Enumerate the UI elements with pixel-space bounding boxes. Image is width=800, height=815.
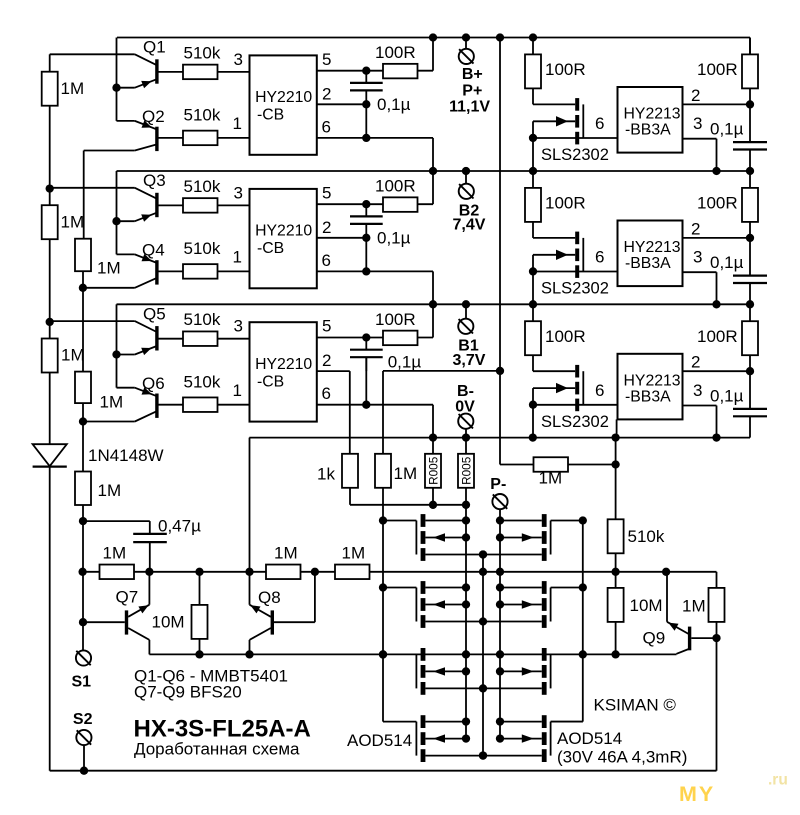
junction Q9 base node bbox=[712, 634, 720, 642]
svg-text:5: 5 bbox=[322, 50, 331, 69]
resistor 510k (Q4 base) bbox=[183, 264, 218, 279]
junction on B2 rail bbox=[746, 167, 754, 175]
wire source column bbox=[482, 555, 484, 756]
resistor 100R (cell filter) bbox=[383, 64, 418, 79]
transistor Q3 MMBT5401 bbox=[155, 193, 158, 217]
wire body arrow L2 bbox=[425, 604, 466, 606]
terminal S2 bbox=[76, 730, 91, 745]
svg-text:0,1µ: 0,1µ bbox=[377, 95, 411, 114]
wire pin2 net to bias node bbox=[383, 370, 500, 372]
resistor 1M (bias) bbox=[534, 457, 569, 472]
transistor AOD514 bank L4 bbox=[421, 715, 426, 728]
junction on B1 rail bbox=[746, 300, 754, 308]
svg-text:S2: S2 bbox=[73, 711, 93, 728]
wire B- rail to 510k bbox=[615, 438, 617, 520]
op-amp U HY2213-BB3A balancer IC bbox=[618, 221, 683, 287]
svg-text:100R: 100R bbox=[697, 194, 738, 213]
wire 1k bottom bbox=[349, 488, 351, 505]
junction pin6 cap node bbox=[362, 267, 370, 275]
junction bus at source col bbox=[479, 568, 487, 576]
junction on B2 rail bbox=[529, 167, 537, 175]
transistor AOD514 bank L3 bbox=[421, 648, 426, 661]
junction bus at Q8 base bbox=[311, 568, 319, 576]
wire pin 5 bbox=[317, 337, 433, 339]
terminal P- bbox=[492, 494, 507, 509]
resistor 100R (cap filter) bbox=[749, 304, 751, 321]
junction pin6 cap node bbox=[362, 134, 370, 142]
svg-text:0,1µ: 0,1µ bbox=[710, 253, 744, 272]
junction body L4 bbox=[462, 734, 470, 742]
svg-text:MY: MY bbox=[679, 782, 715, 806]
transistor Q6 MMBT5401 bbox=[155, 394, 158, 418]
svg-text:1M: 1M bbox=[97, 259, 121, 278]
wire pin 3 bbox=[683, 138, 717, 140]
wire Q4 emitter path bbox=[117, 253, 135, 255]
svg-text:1M: 1M bbox=[539, 469, 563, 488]
svg-text:1M: 1M bbox=[98, 481, 122, 500]
wire Q1 collector bbox=[50, 53, 135, 55]
svg-text:7,4V: 7,4V bbox=[453, 217, 486, 234]
resistor R 1M (cell1 divider) bbox=[42, 72, 58, 106]
svg-text:1M: 1M bbox=[342, 544, 366, 563]
svg-text:3: 3 bbox=[234, 317, 243, 336]
resistor 100R (cell filter) bbox=[383, 331, 418, 346]
wire Q9 base to bottom rail bbox=[716, 638, 718, 771]
diode D1 1N4148W bbox=[33, 444, 67, 466]
wire FET body arrow bbox=[533, 387, 575, 389]
wire Q7 base bbox=[83, 621, 125, 623]
junction body R2 bbox=[496, 600, 504, 608]
wire B+ bias vertical bbox=[499, 38, 501, 371]
junction source row4 bbox=[479, 751, 487, 759]
junction on B2 rail bbox=[462, 167, 470, 175]
transistor Q4 MMBT5401 bbox=[155, 260, 158, 284]
svg-text:0,1µ: 0,1µ bbox=[377, 229, 411, 248]
resistor 1M (Q9 base) bbox=[709, 588, 725, 622]
transistor Q9 BFS20 bbox=[688, 627, 691, 651]
terminal B1 bbox=[465, 304, 467, 318]
svg-text:Q2: Q2 bbox=[142, 107, 165, 126]
wire box corner drop bbox=[616, 419, 618, 437]
wire body arrow L3 bbox=[425, 670, 466, 672]
junction body L3 bbox=[462, 667, 470, 675]
capacitor 0,1u (balance) bbox=[749, 88, 751, 142]
wire pin 2 bbox=[317, 103, 367, 105]
wire gate drive bus bbox=[149, 653, 676, 655]
junction 1M left lead node bbox=[78, 568, 86, 576]
junction drain L4 bbox=[462, 717, 470, 725]
wire 1M Q9 leads bbox=[716, 572, 718, 588]
wire Q2 collector bbox=[135, 144, 157, 150]
junction node left rail cell3 bbox=[46, 318, 54, 326]
wire to pin 3 bbox=[218, 71, 250, 73]
junction FET source node bbox=[529, 267, 537, 275]
wire body arrow L1 bbox=[425, 537, 466, 539]
svg-text:Q6: Q6 bbox=[142, 374, 165, 393]
svg-text:Q5: Q5 bbox=[143, 304, 166, 323]
junction body L2 bbox=[462, 600, 470, 608]
transistor Q1 MMBT5401 bbox=[155, 59, 158, 83]
svg-text:1M: 1M bbox=[61, 346, 85, 365]
junction drain L1 bbox=[462, 516, 470, 524]
svg-text:HY2213: HY2213 bbox=[624, 372, 681, 389]
wire cap to pin6 bbox=[365, 238, 367, 272]
op-amp U HY2210-CB protector IC bbox=[250, 189, 317, 288]
wire source line row2 bbox=[425, 621, 541, 623]
svg-text:100R: 100R bbox=[375, 177, 416, 196]
junction right gate col row2 bbox=[579, 583, 587, 591]
svg-text:HY2213: HY2213 bbox=[624, 239, 681, 256]
transistor AOD514 bank R3 bbox=[542, 648, 547, 661]
wire B+ top rail bbox=[117, 37, 750, 39]
junction Q1 emitter node bbox=[112, 84, 120, 92]
wire FET source vertical bbox=[532, 255, 534, 304]
wire left drain column bbox=[465, 505, 467, 739]
junction bus at 510k bbox=[611, 568, 619, 576]
svg-text:510k: 510k bbox=[628, 527, 665, 546]
resistor 100R (balance gate) bbox=[532, 171, 534, 188]
wire drain stub R1 bbox=[500, 520, 542, 522]
resistor 510k (Q9 bias) bbox=[608, 519, 624, 553]
wire block corner vertical bbox=[116, 38, 118, 121]
junction right gate col row1 bbox=[579, 516, 587, 524]
svg-text:AOD514: AOD514 bbox=[557, 729, 622, 748]
svg-text:0,1µ: 0,1µ bbox=[710, 120, 744, 139]
wire Q2 emitter path bbox=[117, 120, 135, 122]
transistor AOD514 bank R2 bbox=[542, 581, 547, 594]
junction on B2 rail bbox=[712, 167, 720, 175]
wire pin 6 bbox=[317, 137, 433, 139]
capacitor 0,1u (cell filter) bbox=[365, 204, 367, 216]
transistor AOD514 bank L1 bbox=[421, 514, 426, 527]
wire 100R to FET drain bbox=[532, 88, 534, 104]
capacitor 0,1u (balance) bbox=[749, 222, 751, 276]
wire to pin 1 bbox=[218, 270, 250, 272]
wire chain segment bbox=[82, 403, 84, 471]
junction FET source node bbox=[529, 401, 537, 409]
svg-text:R005: R005 bbox=[459, 456, 473, 485]
capacitor 0,1u (cell filter) bbox=[365, 338, 367, 350]
svg-text:Q1: Q1 bbox=[143, 38, 166, 57]
capacitor 0,1u (cell filter) bbox=[365, 71, 367, 83]
svg-text:R005: R005 bbox=[426, 456, 440, 485]
wire bias vertical lower bbox=[499, 371, 501, 465]
junction bias/1M node bbox=[496, 367, 504, 375]
transistor Q5 MMBT5401 bbox=[155, 326, 158, 350]
junction on B2 rail bbox=[429, 167, 437, 175]
wire body arrow R2 bbox=[500, 604, 542, 606]
resistor 510k (Q1 base) bbox=[183, 65, 218, 80]
svg-text:10M: 10M bbox=[152, 613, 185, 632]
junction on B- rail bbox=[712, 433, 720, 441]
terminal B- bbox=[458, 414, 473, 429]
wire drain stub L1 bbox=[425, 520, 466, 522]
junction Q4 collector node bbox=[79, 284, 87, 292]
resistor 510k (Q6 base) bbox=[183, 397, 218, 412]
junction drain R3 bbox=[496, 650, 504, 658]
wire chain segment bbox=[82, 271, 84, 371]
svg-text:3: 3 bbox=[234, 50, 243, 69]
junction gate feed row3 bbox=[379, 650, 387, 658]
wire drain stub R4 bbox=[500, 721, 542, 723]
svg-text:.ru: .ru bbox=[768, 772, 788, 789]
wire source/emitter bus bbox=[83, 571, 717, 573]
junction Q7 base node bbox=[79, 618, 87, 626]
svg-text:0,1µ: 0,1µ bbox=[710, 386, 744, 405]
transistor AOD514 bank R1 bbox=[542, 514, 547, 527]
resistor 1M (Q8 emitter link) bbox=[266, 565, 301, 580]
junction body R4 bbox=[496, 734, 504, 742]
junction pin6 cap node bbox=[362, 401, 370, 409]
svg-text:6: 6 bbox=[322, 384, 331, 403]
junction gate feed row1 bbox=[379, 516, 387, 524]
wire 10M2 leads bbox=[615, 572, 617, 588]
resistor 100R (cap filter) bbox=[749, 38, 751, 55]
wire source line row4 bbox=[425, 755, 541, 757]
svg-text:510k: 510k bbox=[184, 106, 221, 125]
junction source row1 bbox=[479, 550, 487, 558]
junction Q3 emitter node bbox=[112, 217, 120, 225]
svg-text:3: 3 bbox=[234, 183, 243, 202]
junction on B1 rail bbox=[712, 300, 720, 308]
svg-text:2: 2 bbox=[322, 351, 331, 370]
op-amp U HY2213-BB3A balancer IC bbox=[618, 354, 683, 420]
junction Q5 emitter node bbox=[112, 350, 120, 358]
wire Q4 base bbox=[158, 270, 183, 272]
transistor Q8 BFS20 bbox=[271, 610, 274, 634]
svg-text:2: 2 bbox=[691, 86, 700, 105]
svg-text:(30V 46A 4,3mR): (30V 46A 4,3mR) bbox=[557, 748, 687, 767]
svg-text:11,1V: 11,1V bbox=[449, 99, 490, 116]
transistor SLS2302 MOSFET bbox=[575, 232, 579, 245]
wire Q2 collector chain bbox=[83, 151, 85, 239]
svg-text:2: 2 bbox=[322, 84, 331, 103]
svg-text:100R: 100R bbox=[375, 310, 416, 329]
wire Q3 base bbox=[158, 204, 183, 206]
op-amp U HY2210-CB protector IC bbox=[250, 322, 317, 421]
svg-text:Q8: Q8 bbox=[258, 588, 281, 607]
wire top rail right corner bbox=[749, 38, 751, 55]
wire body arrow R4 bbox=[500, 738, 542, 740]
junction pin2 node bbox=[746, 367, 754, 375]
wire Q6 collector bbox=[135, 411, 157, 421]
svg-text:100R: 100R bbox=[697, 327, 738, 346]
wire Q4 collector bbox=[135, 278, 157, 288]
junction source column row4 bbox=[479, 751, 487, 759]
wire B1 rail bbox=[117, 303, 751, 305]
junction cap top node bbox=[362, 333, 370, 341]
junction body R1 bbox=[496, 533, 504, 541]
transistor AOD514 bank R4 bbox=[542, 715, 547, 728]
svg-text:Q4: Q4 bbox=[142, 241, 165, 260]
wire gate feed R4 bbox=[551, 721, 583, 723]
resistor 510k (Q5 base) bbox=[183, 331, 218, 346]
svg-text:510k: 510k bbox=[184, 373, 221, 392]
svg-text:100R: 100R bbox=[375, 43, 416, 62]
wire Q2 base bbox=[158, 137, 183, 139]
svg-text:100R: 100R bbox=[697, 60, 738, 79]
svg-text:-BB3A: -BB3A bbox=[625, 255, 671, 272]
resistor 1k (pin2 sense) bbox=[342, 454, 358, 488]
wire Q9 base bbox=[691, 637, 716, 639]
capacitor 0,1u (balance) bbox=[749, 355, 751, 409]
resistor R005 shunt B bbox=[465, 438, 467, 454]
wire pin 6 bbox=[533, 271, 618, 273]
wire pin 2 bbox=[683, 103, 751, 105]
wire pin 5 bbox=[317, 70, 433, 72]
terminal B2 bbox=[465, 171, 467, 184]
junction R005 B bottom bbox=[462, 501, 470, 509]
wire gate feed L4 bbox=[383, 721, 416, 723]
junction bus at P- col bbox=[496, 568, 504, 576]
svg-text:1: 1 bbox=[233, 381, 242, 400]
resistor R 1M (Q7 chain) bbox=[75, 472, 91, 506]
op-amp U HY2210-CB protector IC bbox=[250, 55, 317, 154]
svg-text:HY2210: HY2210 bbox=[255, 223, 312, 240]
resistor 1M (Q7 emitter) bbox=[100, 565, 135, 580]
wire 1M to 510k bbox=[568, 464, 616, 466]
wire Q8 base bbox=[274, 621, 315, 623]
svg-text:1: 1 bbox=[233, 248, 242, 267]
resistor 100R (cap filter) bbox=[749, 171, 751, 188]
wire bottom rail bbox=[50, 770, 717, 772]
wire drain stub L4 bbox=[425, 721, 466, 723]
svg-text:SLS2302: SLS2302 bbox=[541, 280, 609, 298]
wire gate feed R1 bbox=[551, 520, 583, 522]
svg-text:HY2213: HY2213 bbox=[624, 106, 681, 123]
junction drive bus at 10M bottom bbox=[195, 650, 203, 658]
svg-text:HY2210: HY2210 bbox=[255, 89, 312, 106]
wire pin 5 bbox=[317, 203, 433, 205]
wire pin 2 bbox=[683, 370, 751, 372]
svg-text:B+: B+ bbox=[462, 66, 483, 83]
junction on B+ rail bbox=[529, 33, 537, 41]
wire gate feed L2 bbox=[383, 587, 416, 589]
wire B2 rail bbox=[117, 170, 751, 172]
wire Q6 base bbox=[158, 404, 183, 406]
svg-text:6: 6 bbox=[322, 251, 331, 270]
junction drive bus at gate vert bbox=[379, 650, 387, 658]
wire 1M gate pull top lead bbox=[382, 371, 384, 454]
junction cap bottom node bbox=[362, 100, 370, 108]
wire cap to pin6 bbox=[365, 357, 367, 405]
wire Q6 emitter path bbox=[117, 387, 135, 389]
wire right gate column bbox=[582, 521, 584, 722]
wire pin 2 bbox=[683, 237, 751, 239]
wire 10M leads bbox=[199, 572, 201, 605]
resistor 100R (cell filter) bbox=[383, 197, 418, 212]
svg-text:Q9: Q9 bbox=[643, 629, 666, 648]
wire P- drain column bbox=[499, 521, 501, 739]
svg-text:5: 5 bbox=[322, 183, 331, 202]
wire body arrow L4 bbox=[425, 738, 466, 740]
wire to pin 3 bbox=[218, 338, 250, 340]
resistor 100R (balance gate) bbox=[532, 304, 534, 321]
junction drive bus at Q8 collector bbox=[245, 650, 253, 658]
junction on B- rail bbox=[611, 433, 619, 441]
junction R005 A bottom bbox=[429, 501, 437, 509]
transistor Q2 MMBT5401 bbox=[155, 127, 158, 151]
wire FET source vertical bbox=[532, 121, 534, 171]
junction on B- rail bbox=[429, 433, 437, 441]
svg-text:SLS2302: SLS2302 bbox=[541, 146, 609, 164]
resistor 510k (Q2 base) bbox=[183, 131, 218, 146]
junction on B1 rail bbox=[429, 300, 437, 308]
junction right gate col row3 bbox=[579, 650, 587, 658]
svg-text:P+: P+ bbox=[462, 82, 482, 99]
svg-text:AOD514: AOD514 bbox=[347, 731, 412, 750]
junction on B+ rail bbox=[429, 33, 437, 41]
wire cap to pin6 bbox=[365, 104, 367, 138]
svg-text:1: 1 bbox=[233, 114, 242, 133]
svg-text:510k: 510k bbox=[184, 239, 221, 258]
svg-text:-BB3A: -BB3A bbox=[625, 122, 671, 139]
svg-text:Q3: Q3 bbox=[143, 171, 166, 190]
junction 0,47u feed node bbox=[79, 517, 87, 525]
junction on B1 rail bbox=[462, 300, 470, 308]
wire to pin 1 bbox=[218, 404, 250, 406]
junction source column top bbox=[479, 550, 487, 558]
wire drain stub R2 bbox=[500, 587, 542, 589]
wire pin 6 bbox=[533, 404, 618, 406]
junction body L1 bbox=[462, 533, 470, 541]
resistor R 1M (Q4 chain) bbox=[75, 239, 91, 272]
junction cap top node bbox=[362, 67, 370, 75]
wire pin 6 bbox=[533, 137, 618, 139]
wire source line row1 bbox=[425, 554, 541, 556]
svg-text:510k: 510k bbox=[184, 43, 221, 62]
resistor R005 shunt A bbox=[432, 438, 434, 454]
wire FET body arrow bbox=[533, 120, 575, 122]
svg-text:1N4148W: 1N4148W bbox=[88, 446, 164, 465]
wire to pin 3 bbox=[218, 204, 250, 206]
wire block corner vertical bbox=[116, 304, 118, 387]
svg-text:SLS2302: SLS2302 bbox=[541, 413, 609, 431]
transistor Q7 BFS20 bbox=[125, 610, 128, 634]
terminal S1 bbox=[76, 650, 91, 665]
svg-text:0,47µ: 0,47µ bbox=[158, 517, 201, 536]
wire drain stub L2 bbox=[425, 587, 466, 589]
junction bus at cap bbox=[145, 568, 153, 576]
wire source line row3 bbox=[425, 687, 541, 689]
svg-text:3: 3 bbox=[693, 381, 702, 400]
svg-text:2: 2 bbox=[691, 219, 700, 238]
wire chain segment bbox=[82, 505, 84, 650]
resistor 510k (Q3 base) bbox=[183, 198, 218, 213]
terminal B+ P+ bbox=[465, 38, 467, 50]
wire gate feed R2 bbox=[551, 587, 583, 589]
junction drain R1 bbox=[496, 516, 504, 524]
svg-text:1k: 1k bbox=[317, 465, 335, 484]
svg-text:1M: 1M bbox=[394, 464, 418, 483]
junction on B1 rail bbox=[529, 300, 537, 308]
wire gate feed L1 bbox=[383, 520, 416, 522]
svg-text:100R: 100R bbox=[545, 60, 586, 79]
svg-text:510k: 510k bbox=[184, 177, 221, 196]
svg-text:KSIMAN ©: KSIMAN © bbox=[594, 696, 677, 715]
svg-text:S1: S1 bbox=[72, 674, 92, 691]
svg-text:1M: 1M bbox=[103, 544, 127, 563]
svg-text:10M: 10M bbox=[630, 596, 663, 615]
svg-text:B-: B- bbox=[457, 383, 474, 400]
svg-text:5: 5 bbox=[322, 317, 331, 336]
junction on B+ rail bbox=[462, 33, 470, 41]
junction on B- rail bbox=[529, 433, 537, 441]
svg-text:2: 2 bbox=[691, 353, 700, 372]
resistor R 1M (cell2 divider) bbox=[42, 205, 58, 239]
junction cap bottom node bbox=[362, 234, 370, 242]
junction bus at 10M bbox=[195, 568, 203, 576]
